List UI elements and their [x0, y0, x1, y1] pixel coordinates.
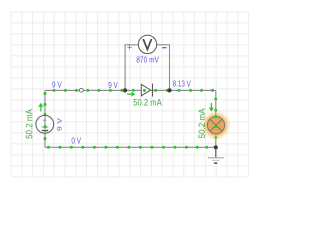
- svg-text:9 V: 9 V: [57, 117, 64, 131]
- current arrow (diode, right): [127, 92, 135, 97]
- label: lamp current 50.2 mA (rotated): [197, 108, 207, 138]
- svg-text:9 V: 9 V: [52, 79, 62, 89]
- current dot at lamp top terminal: [214, 115, 217, 118]
- junction: voltmeter right tap: [167, 88, 171, 92]
- svg-text:50.2 mA: 50.2 mA: [133, 97, 161, 107]
- wire: right vertical (lamp bottom to ground junction): [214, 134, 217, 147]
- svg-text:8.13 V: 8.13 V: [173, 79, 191, 89]
- junction: ground tap: [214, 145, 218, 149]
- diode D1: [141, 84, 152, 97]
- svg-text:50.2 mA: 50.2 mA: [24, 109, 34, 139]
- label: battery current 50.2 mA (rotated): [24, 109, 34, 139]
- junction: voltmeter left tap: [123, 88, 127, 92]
- wire: right vertical (corner to lamp top): [214, 90, 217, 116]
- ground: [208, 147, 224, 163]
- wire: voltmeter right lead: [157, 45, 170, 91]
- current dot at lamp center: [215, 125, 218, 128]
- current dot inside diode: [143, 89, 146, 92]
- label: node voltage 0 V: [71, 135, 81, 145]
- node: open terminal on top wire: [79, 88, 83, 92]
- wire: node to voltmeter tap junction: [81, 89, 125, 92]
- svg-text:9 V: 9 V: [108, 80, 118, 90]
- lamp L1 (glowing): [201, 110, 232, 141]
- svg-text:50.2 mA: 50.2 mA: [197, 108, 207, 138]
- wire: diode cathode to right corner: [151, 89, 216, 92]
- current dot inside battery: [43, 125, 46, 128]
- label: node voltage 9 V (right of node): [108, 80, 118, 90]
- wire: junction to diode anode: [125, 89, 141, 92]
- svg-text:+: +: [127, 41, 133, 52]
- label: node voltage 8.13 V: [173, 79, 191, 89]
- label: diode current 50.2 mA: [133, 97, 161, 107]
- current arrow (lamp, down): [209, 103, 214, 112]
- battery V1 (9 V voltage source): [36, 115, 54, 133]
- voltmeter M1: [138, 35, 156, 53]
- label: voltmeter + terminal: [127, 41, 133, 52]
- svg-text:870 mV: 870 mV: [136, 56, 159, 65]
- current arrow (battery, up): [38, 103, 43, 112]
- label: battery voltage 9 V (rotated): [57, 117, 64, 131]
- label: voltmeter reading 870 mV: [136, 56, 159, 65]
- svg-text:0 V: 0 V: [71, 135, 81, 145]
- label: node voltage 9 V (left): [52, 79, 62, 89]
- wire: top-left segment (battery + to node): [45, 89, 81, 92]
- wire: voltmeter left lead: [125, 45, 138, 91]
- label: voltmeter - terminal: [162, 47, 167, 48]
- wire: left vertical (battery bottom to corner): [44, 133, 47, 147]
- wire: left vertical (corner to battery top): [44, 90, 47, 116]
- wire: bottom horizontal: [45, 146, 216, 149]
